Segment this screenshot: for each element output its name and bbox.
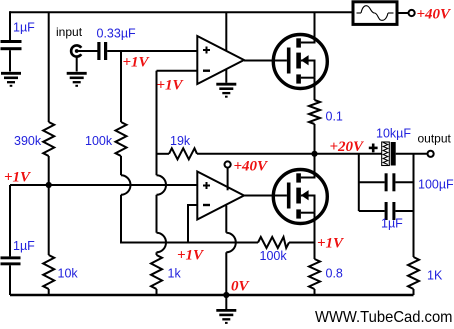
capacitor C2 0.33uF	[97, 42, 107, 60]
svg-text:1µF: 1µF	[13, 239, 35, 253]
svg-text:WWW.TubeCad.com: WWW.TubeCad.com	[315, 309, 453, 326]
svg-text:100k: 100k	[260, 249, 288, 263]
svg-text:+1V: +1V	[4, 170, 32, 186]
svg-text:1K: 1K	[427, 269, 443, 283]
op-amp U2	[197, 172, 244, 220]
wire box to +40V	[397, 12, 408, 14]
wire bypass bracket left	[358, 154, 360, 211]
wire +1V horizontal	[10, 184, 197, 186]
resistor R2 10k	[43, 255, 54, 289]
wire R5 to +20V node	[314, 124, 316, 154]
resistor R4 1k	[151, 255, 162, 289]
svg-text:0.33µF: 0.33µF	[97, 27, 137, 41]
resistor R9 100k lower	[258, 237, 289, 248]
wire Q2 source down	[314, 213, 316, 259]
svg-text:390k: 390k	[14, 134, 42, 148]
svg-text:+20V: +20V	[330, 139, 366, 155]
resistor R8 0.8	[309, 259, 320, 289]
svg-text:0.1: 0.1	[326, 110, 343, 124]
capacitor C1 1uF top-left	[1, 40, 22, 50]
svg-text:1µF: 1µF	[381, 217, 403, 231]
node +20V dot	[311, 151, 317, 157]
wire left branch down to C5	[9, 185, 11, 256]
node 0V junction dot	[223, 292, 229, 298]
terminal output circle	[428, 151, 434, 157]
wire 19k feedback	[157, 153, 170, 155]
wire top-left drop to C1	[9, 11, 11, 40]
ground (below jack)	[67, 73, 87, 86]
capacitor C8 1uF	[359, 210, 385, 212]
svg-text:+1V: +1V	[123, 55, 151, 71]
capacitor C6 10kuF electrolytic	[382, 142, 390, 166]
input jack J1	[71, 45, 81, 56]
resistor R5 0.1	[309, 100, 320, 124]
svg-text:+1V: +1V	[157, 78, 185, 94]
svg-text:+40V: +40V	[234, 159, 270, 175]
svg-text:input: input	[56, 25, 83, 39]
wire 10k to rail	[48, 289, 50, 295]
svg-text:10kµF: 10kµF	[376, 127, 411, 141]
ground (0V)	[216, 296, 236, 323]
svg-text:19k: 19k	[170, 134, 191, 148]
svg-text:+1V: +1V	[177, 248, 205, 264]
wire top rail	[10, 11, 353, 13]
svg-text:1µF: 1µF	[13, 21, 35, 35]
ground (below C1)	[1, 73, 21, 86]
wire hop over 100k wire	[157, 233, 167, 253]
wire U1 feedback branch down	[156, 71, 158, 176]
capacitor C7 100uF	[359, 181, 385, 183]
power supply box with sine	[353, 2, 397, 25]
wire bottom rail	[10, 294, 414, 297]
svg-text:+40V: +40V	[417, 7, 453, 23]
resistor R6 19k	[169, 148, 197, 159]
ground (U1)	[216, 84, 236, 97]
wire 390k to node	[48, 156, 50, 185]
resistor R1 390k	[43, 122, 54, 156]
wire hop over +1V wire	[121, 175, 131, 195]
op-amp U1	[197, 36, 244, 84]
wire node to 10k	[48, 185, 50, 255]
svg-text:10k: 10k	[58, 267, 79, 281]
wire hop over 100k wire	[226, 233, 236, 253]
svg-text:0V: 0V	[231, 278, 251, 294]
wire Q1 source down	[314, 78, 316, 100]
wire U2 V- pin down	[225, 206, 227, 233]
svg-text:1k: 1k	[168, 267, 182, 281]
resistor R3 100k	[116, 122, 127, 156]
resistor R7 1K	[408, 257, 419, 289]
wire U1 output to Q1 gate	[244, 60, 287, 62]
wire 100k lower	[151, 242, 258, 244]
wire to corner, then right	[121, 195, 151, 243]
capacitor C5 1uF bottom-left	[1, 256, 21, 265]
wire U2 output to Q2 gate	[244, 195, 287, 197]
wire U1 V- pin	[225, 70, 227, 83]
wire output branch down	[413, 154, 415, 257]
wire +20V to output	[315, 153, 382, 155]
wire C2 to op-amp U1 + input	[107, 50, 197, 52]
terminal +40V circle	[409, 10, 415, 16]
terminal U2 +40V circle	[225, 161, 231, 167]
wire 100k down to hop	[120, 156, 122, 175]
svg-text:+1V: +1V	[317, 235, 345, 251]
svg-text:output: output	[418, 132, 452, 146]
transistor Q1 MOSFET	[273, 35, 327, 89]
svg-text:100µF: 100µF	[418, 178, 454, 192]
svg-text:0.8: 0.8	[326, 267, 343, 281]
transistor Q2 MOSFET	[273, 170, 327, 224]
node +1V junction dot	[46, 182, 52, 188]
wire hop over +1V wire	[157, 175, 167, 195]
wire U1 supply from rail	[225, 12, 227, 51]
svg-text:100k: 100k	[85, 134, 113, 148]
plus sign for C6	[369, 144, 378, 153]
wire 390k branch top	[48, 12, 50, 122]
wire 100k upper branch	[120, 51, 122, 122]
